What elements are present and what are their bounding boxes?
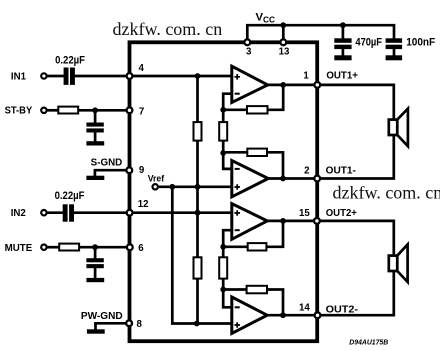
junction node Vref/divider — [195, 184, 201, 190]
wire VCC rail — [247, 25, 394, 42]
ground below C2 — [86, 141, 104, 145]
wire speaker LS1 to OUT1- — [317, 135, 394, 179]
resistor R2 (MUTE) — [59, 244, 79, 251]
pin 1 circle — [314, 82, 320, 88]
pin 8 circle — [126, 320, 132, 326]
junction node U1B out — [280, 176, 286, 182]
op-amp U1D — [232, 297, 267, 333]
junction node U1A- — [220, 107, 226, 113]
svg-text:ST-BY: ST-BY — [5, 105, 33, 116]
terminal IN1 — [41, 73, 46, 78]
pin 3 circle — [244, 39, 250, 45]
wire R2 to pin 6 — [79, 246, 130, 249]
junction node VCC/C5 — [340, 22, 346, 28]
wire column B lower (U1C - to U1D -) — [222, 247, 225, 290]
svg-text:13: 13 — [279, 47, 290, 58]
wire ST-BY to R1 — [46, 109, 59, 112]
svg-text:470µF: 470µF — [355, 36, 382, 48]
resistor R6 (U1C-U1D) — [219, 257, 227, 278]
ground below C5 — [334, 55, 351, 60]
op-amp U1A — [232, 66, 268, 102]
wire pin 8 to PW-GND — [96, 323, 130, 330]
resistor R5 (U1A-U1B) — [219, 122, 227, 141]
wire column B upper (U1A - to U1B -) — [222, 110, 225, 153]
capacitor C1 0.22uF plates — [64, 68, 75, 85]
capacitor C5 470uF plates — [334, 38, 351, 49]
svg-text:S-GND: S-GND — [91, 157, 123, 168]
speaker LS1 — [389, 109, 408, 147]
pin 15 circle — [314, 218, 320, 224]
junction node VCC/pin13 — [280, 22, 286, 28]
svg-text:IN1: IN1 — [11, 71, 27, 82]
junction node U1B- — [220, 150, 226, 156]
svg-text:OUT1-: OUT1- — [326, 165, 356, 176]
wire C2 to ground stub — [94, 132, 97, 142]
resistor R10 feedback U1D — [247, 286, 267, 294]
junction node U1C out — [280, 218, 286, 224]
svg-text:PW-GND: PW-GND — [81, 311, 123, 322]
resistor R7 feedback U1A — [247, 106, 268, 113]
op-amp U1C — [232, 204, 267, 240]
resistor R3 divider upper — [194, 122, 202, 141]
svg-text:OUT2+: OUT2+ — [326, 208, 358, 219]
resistor R8 feedback U1B — [247, 149, 267, 156]
pin 2 circle — [314, 176, 320, 182]
wire U1A feedback — [223, 85, 283, 110]
wire U1D output to pin 14 — [266, 314, 318, 317]
wire C3 to pin 12 — [74, 211, 130, 214]
svg-text:9: 9 — [139, 165, 145, 176]
resistor R4 divider lower — [194, 257, 202, 278]
svg-text:7: 7 — [139, 106, 144, 117]
resistor R1 (ST-BY) — [58, 107, 78, 114]
svg-text:100nF: 100nF — [406, 36, 435, 48]
svg-text:8: 8 — [137, 319, 143, 330]
ground PW-GND — [87, 329, 105, 333]
junction node pin4/divider — [195, 73, 201, 79]
svg-text:dzkfw. com. cn: dzkfw. com. cn — [333, 183, 440, 203]
svg-text:IN2: IN2 — [11, 208, 26, 219]
junction node MUTE cap — [92, 244, 98, 250]
wire U1C output to pin 15 — [266, 220, 317, 223]
terminal ST-BY — [41, 108, 46, 113]
terminal Vref — [153, 184, 158, 189]
wire pin 4 to op-amp U1A + input — [130, 75, 232, 78]
ground S-GND — [86, 176, 104, 180]
wire VCC drop to C5 — [342, 25, 345, 39]
pin 4 circle — [127, 73, 133, 79]
wire speaker LS2 to OUT2- — [318, 271, 394, 315]
svg-text:D94AU175B: D94AU175B — [349, 337, 388, 346]
svg-text:6: 6 — [138, 243, 144, 254]
wire C4 to ground stub — [94, 268, 97, 279]
wire IN1 to C1 — [46, 75, 65, 78]
junction node Vref branch — [169, 184, 175, 190]
wire C5 ground stub — [342, 49, 345, 56]
wire MUTE to R2 — [46, 246, 59, 249]
wire U1A output to pin 1 — [266, 84, 317, 87]
junction node U1C- — [220, 244, 226, 250]
wire Vref branch to U1D + input — [172, 187, 232, 324]
svg-text:14: 14 — [299, 303, 310, 314]
op-amp U1B — [232, 161, 268, 197]
wire U1B feedback — [223, 152, 283, 178]
svg-text:12: 12 — [138, 199, 149, 210]
svg-text:0.22µF: 0.22µF — [55, 54, 85, 66]
junction node divider/U1D+ — [194, 321, 200, 327]
wire IN2 to C3 — [46, 211, 64, 214]
wire divider column A — [196, 76, 199, 324]
ground below C4 — [86, 278, 104, 282]
svg-text:OUT2-: OUT2- — [326, 305, 358, 316]
svg-text:1: 1 — [303, 71, 309, 82]
wire OUT2+ to speaker LS2 — [317, 221, 394, 256]
IC U1 box — [130, 42, 318, 341]
pin 12 circle — [127, 210, 133, 216]
junction node U1D out — [280, 312, 286, 318]
junction node ST-BY cap — [92, 107, 98, 113]
pin 6 circle — [127, 244, 133, 250]
speaker LS2 — [389, 244, 408, 282]
capacitor C6 100nF plates — [386, 38, 403, 49]
svg-text:0.22µF: 0.22µF — [55, 190, 85, 202]
svg-text:VCC: VCC — [256, 12, 276, 25]
wire VCC drop to pin 13 — [282, 25, 285, 42]
terminal MUTE — [41, 245, 46, 250]
wire U1C - input — [223, 230, 232, 247]
wire pin 9 to S-GND — [95, 170, 129, 176]
svg-text:15: 15 — [299, 208, 310, 219]
svg-text:MUTE: MUTE — [5, 243, 33, 254]
wire U1B - input — [223, 153, 232, 169]
svg-text:dzkfw. com. cn: dzkfw. com. cn — [113, 19, 223, 39]
resistor R9 feedback U1C — [248, 243, 267, 250]
terminal IN2 — [41, 210, 46, 215]
wire U1C feedback — [223, 221, 283, 247]
capacitor C2 (ST-BY) plates — [86, 123, 103, 133]
wire U1D - input — [223, 290, 232, 308]
junction node U1D- — [220, 287, 226, 293]
capacitor C3 0.22uF plates — [63, 204, 74, 221]
svg-text:Vref: Vref — [148, 173, 165, 184]
wire C1 to pin 4 — [75, 75, 130, 78]
junction node U1A out — [280, 82, 286, 88]
wire MUTE cap stub — [94, 247, 97, 258]
wire R1 to pin 7 — [78, 109, 130, 112]
svg-text:2: 2 — [304, 165, 309, 176]
svg-text:3: 3 — [246, 47, 252, 58]
pin 7 circle — [127, 107, 133, 113]
wire OUT1+ to speaker LS1 — [317, 85, 394, 120]
pin 13 circle — [280, 39, 286, 45]
svg-text:OUT1+: OUT1+ — [326, 71, 358, 82]
junction node pin12/divider — [195, 210, 201, 216]
ground below C6 — [386, 55, 403, 60]
wire ST-BY cap stub — [94, 110, 97, 123]
pin 9 circle — [126, 167, 132, 173]
pin 14 circle — [315, 312, 321, 318]
wire pin 12 to op-amp U1C + input — [130, 211, 232, 214]
wire U1B output to pin 2 — [267, 177, 318, 180]
wire U1D feedback — [223, 290, 283, 316]
wire Vref line to op-amp U1B + input — [155, 185, 232, 188]
wire U1A - input — [223, 94, 232, 110]
svg-text:4: 4 — [139, 63, 145, 74]
capacitor C4 (MUTE) plates — [86, 258, 103, 268]
wire C6 ground stub — [393, 49, 396, 56]
